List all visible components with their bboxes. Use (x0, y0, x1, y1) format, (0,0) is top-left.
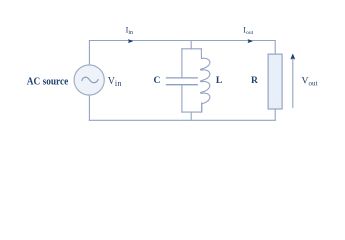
current arrow I_in head (129, 40, 133, 43)
wire resistor lead lower (274, 109, 276, 120)
svg-text:R: R (251, 75, 259, 86)
wire inductor branch upper (200, 49, 202, 59)
wire capacitor branch upper (181, 49, 183, 78)
wire inductor branch lower (201, 103, 203, 112)
current arrow I_out head (248, 40, 252, 43)
svg-text:Vout: Vout (302, 76, 318, 88)
svg-text:AC source: AC source (27, 76, 69, 87)
wire resistor lead upper (274, 41, 276, 55)
wire left branch lower (88, 95, 90, 120)
AC source V1 circle (74, 65, 104, 95)
inductor L coil (201, 58, 210, 112)
svg-text:C: C (154, 75, 161, 86)
svg-text:L: L (216, 75, 222, 86)
AC source sine symbol (82, 77, 98, 83)
svg-text:Vin: Vin (108, 76, 122, 88)
capacitor C plates (166, 78, 198, 85)
wire tank top connector (182, 48, 202, 50)
wire tank bottom connector (182, 111, 202, 113)
wire top horizontal (89, 40, 275, 42)
Vout arrow head (291, 54, 295, 59)
wire tank bottom stub (190, 112, 192, 120)
wire capacitor branch lower (181, 85, 183, 112)
wire bottom horizontal (89, 119, 275, 121)
wire tank top stub (190, 41, 192, 49)
resistor R box (268, 54, 282, 109)
Vout arrow shaft (292, 59, 294, 108)
svg-text:Iout: Iout (243, 26, 253, 37)
svg-text:Iin: Iin (126, 26, 133, 37)
wire left branch upper (88, 41, 90, 65)
